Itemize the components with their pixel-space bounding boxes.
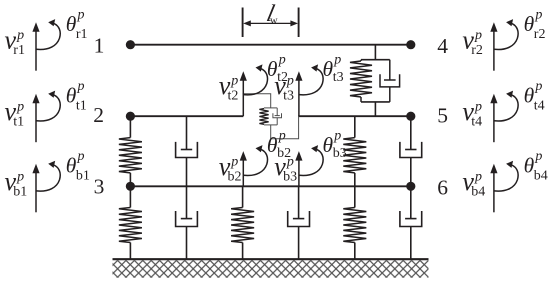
arrow v_t2: [242, 80, 244, 117]
ground hatching: [113, 260, 429, 278]
curved arrow theta_b2: [243, 149, 267, 175]
svg-text:4: 4: [437, 34, 448, 58]
svg-text:b4: b4: [534, 169, 548, 184]
curved arrow theta_b3: [299, 149, 323, 175]
svg-text:p: p: [16, 99, 24, 114]
svg-text:r1: r1: [13, 43, 25, 58]
damper Cb2 column 4: [298, 186, 300, 218]
svg-text:t2: t2: [228, 88, 239, 103]
svg-text:p: p: [534, 7, 542, 22]
curved arrow theta_b4: [494, 165, 518, 191]
svg-text:t4: t4: [471, 114, 482, 129]
svg-text:p: p: [16, 28, 24, 43]
svg-text:t1: t1: [76, 99, 87, 114]
svg-text:t3: t3: [333, 70, 344, 85]
spring Kb3 column 5: [354, 186, 356, 207]
wire stem top of rail-pad combo: [374, 45, 376, 60]
svg-text:b4: b4: [471, 185, 485, 200]
node 4 dot: [406, 40, 415, 49]
svg-text:3: 3: [94, 175, 105, 199]
spring Kb1 column 1: [129, 186, 131, 207]
beam 2-5 right segment: [298, 115, 411, 117]
joint damper: [276, 108, 278, 116]
svg-text:p: p: [474, 170, 482, 185]
node 3 dot: [126, 182, 135, 191]
damper Cb3 column 6: [410, 186, 412, 218]
arrow v_t3: [298, 80, 300, 117]
arrow v_t4: [493, 102, 495, 142]
arrow v_r2: [493, 31, 495, 71]
arrow v_r1: [35, 31, 37, 71]
beam 3-6: [130, 185, 410, 187]
curved arrow theta_t2: [243, 69, 267, 95]
arrow v_t1: [35, 102, 37, 142]
svg-text:p: p: [77, 79, 85, 94]
dimension line with arrowheads: [250, 22, 292, 24]
rail-pad damper: [389, 60, 391, 80]
dimension tick left: [242, 8, 244, 38]
arrow v_b3: [298, 160, 300, 187]
svg-text:1: 1: [94, 34, 105, 58]
wire stem bottom of rail-pad combo: [374, 102, 376, 116]
svg-text:p: p: [534, 79, 542, 94]
joint combo top bar: [264, 107, 277, 109]
dimension tick right: [298, 8, 300, 38]
svg-text:p: p: [230, 73, 238, 88]
node 6 dot: [406, 182, 415, 191]
damper C1 column 2: [186, 116, 188, 149]
damper Cb1 column 2: [186, 186, 188, 218]
rail-pad combo top bar: [361, 59, 390, 61]
svg-text:p: p: [474, 28, 482, 43]
rail-pad spring: [360, 60, 362, 61]
svg-text:t3: t3: [283, 88, 294, 103]
svg-text:p: p: [286, 73, 294, 88]
svg-text:b1: b1: [13, 185, 27, 200]
wire joint connector top: [243, 94, 271, 108]
svg-text:r2: r2: [534, 27, 546, 42]
svg-text:p: p: [278, 53, 286, 68]
svg-text:5: 5: [437, 104, 448, 128]
wire joint connector bottom: [271, 116, 299, 139]
spring K1 column 1: [129, 116, 131, 137]
svg-text:t1: t1: [13, 114, 24, 129]
curved arrow theta_r1: [36, 23, 60, 49]
svg-text:r2: r2: [471, 43, 483, 58]
arrow v_b1: [35, 172, 37, 212]
node 2 dot: [126, 112, 135, 121]
svg-text:p: p: [534, 149, 542, 164]
node 1 dot: [126, 40, 135, 49]
svg-text:p: p: [333, 129, 341, 144]
curved arrow theta_r2: [494, 23, 518, 49]
svg-text:p: p: [474, 99, 482, 114]
svg-text:b3: b3: [333, 146, 347, 161]
svg-text:p: p: [77, 7, 85, 22]
node 5 dot: [406, 112, 415, 121]
arrow v_b2: [242, 160, 244, 187]
damper C2 column 6: [410, 116, 412, 149]
curved arrow theta_t1: [36, 95, 60, 121]
svg-text:p: p: [278, 129, 286, 144]
joint combo bottom bar: [264, 124, 277, 126]
svg-text:p: p: [230, 154, 238, 169]
curved arrow theta_b1: [36, 165, 60, 191]
svg-text:w: w: [270, 15, 278, 26]
svg-text:b3: b3: [283, 169, 297, 184]
joint spring: [259, 109, 268, 125]
svg-text:p: p: [77, 149, 85, 164]
curved arrow theta_t3: [299, 69, 323, 95]
svg-text:r1: r1: [76, 27, 88, 42]
svg-text:6: 6: [437, 175, 448, 199]
spring Kb2 column 3: [242, 186, 244, 207]
svg-text:t4: t4: [534, 99, 545, 114]
svg-text:b2: b2: [228, 169, 242, 184]
svg-text:b1: b1: [76, 169, 90, 184]
svg-text:p: p: [16, 170, 24, 185]
rail-pad combo bottom bar: [361, 101, 390, 103]
ground line: [113, 258, 429, 260]
beam rail 1-4: [130, 44, 410, 46]
svg-text:2: 2: [93, 103, 104, 127]
beam 2-5 left segment: [130, 115, 243, 117]
spring K2 column 5: [354, 116, 356, 137]
svg-text:p: p: [286, 154, 294, 169]
curved arrow theta_t4: [494, 95, 518, 121]
svg-text:p: p: [333, 53, 341, 68]
arrow v_b4: [493, 172, 495, 212]
